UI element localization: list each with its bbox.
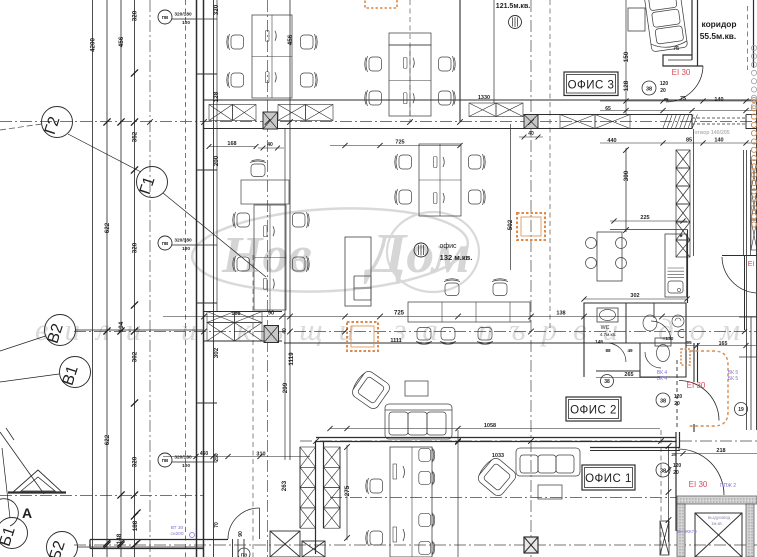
axis bubble B1 bbox=[0, 518, 28, 549]
WC door arc 3 bbox=[645, 352, 661, 368]
dim text 302 kitchen bbox=[584, 298, 687, 300]
axis line B horizontal y=545 bbox=[74, 544, 757, 546]
leader line B2 axis bbox=[77, 546, 204, 548]
corridor wall step bbox=[663, 55, 703, 66]
column X bottom a bbox=[270, 531, 300, 557]
svg-text:ВН ЖК70: ВН ЖК70 bbox=[677, 529, 697, 534]
wall band V bottom edge bbox=[204, 340, 283, 342]
door jambs bottom bbox=[232, 539, 234, 557]
svg-text:100: 100 bbox=[182, 246, 190, 252]
dim 168 top bbox=[209, 146, 256, 148]
vent symbol PB 2 bbox=[158, 236, 196, 252]
svg-text:А: А bbox=[22, 505, 32, 521]
WC door arc 2 bbox=[651, 321, 671, 341]
svg-text:265: 265 bbox=[624, 372, 633, 378]
axis bubble G1 bbox=[137, 167, 168, 198]
svg-text:ПЗ: ПЗ bbox=[241, 553, 247, 557]
column X dark x524 bbox=[524, 537, 538, 553]
chair D top bbox=[250, 160, 266, 177]
svg-text:1033: 1033 bbox=[492, 453, 504, 459]
svg-text:263: 263 bbox=[281, 480, 288, 491]
svg-text:725: 725 bbox=[394, 311, 405, 317]
svg-text:коридор: коридор bbox=[701, 19, 736, 29]
svg-text:622: 622 bbox=[104, 222, 111, 233]
circled 38 ofis2 bbox=[656, 393, 670, 407]
svg-text:25: 25 bbox=[671, 452, 677, 458]
svg-text:502: 502 bbox=[507, 219, 514, 230]
svg-text:WC: WC bbox=[601, 325, 610, 331]
svg-text:сн200: сн200 bbox=[170, 531, 183, 537]
axis bubble V1 bbox=[60, 357, 91, 388]
window band line x=217 bbox=[216, 0, 218, 312]
orange duct path bbox=[688, 351, 728, 426]
leader line G2-G1 bbox=[68, 134, 141, 172]
svg-text:1119: 1119 bbox=[288, 352, 295, 366]
orange column square 1 bbox=[347, 322, 378, 351]
leader line to B1 bbox=[2, 448, 10, 518]
svg-text:19: 19 bbox=[738, 407, 744, 413]
dim 40 col top bbox=[519, 136, 543, 138]
hatch band bottom right col bbox=[324, 447, 341, 467]
watermark logo ellipse bbox=[190, 202, 479, 298]
stippled wall vertical left bbox=[677, 504, 685, 557]
svg-text:132 м.кв.: 132 м.кв. bbox=[440, 253, 473, 262]
axis line vertical x=150 bbox=[149, 0, 151, 557]
svg-text:250: 250 bbox=[214, 453, 220, 462]
dim line x=347 bottom bbox=[346, 445, 348, 540]
wall right mid horizontal y=255 bbox=[722, 255, 757, 257]
vent symbol PB 3 bbox=[158, 453, 196, 469]
svg-text:302: 302 bbox=[213, 347, 220, 358]
svg-text:38: 38 bbox=[660, 399, 666, 405]
wall line x=460 top bbox=[459, 0, 461, 122]
svg-text:120: 120 bbox=[660, 81, 669, 87]
svg-text:ПВ: ПВ bbox=[162, 241, 169, 246]
dim line y=145 top bbox=[330, 145, 460, 147]
axis line vertical x=267.5 bbox=[267, 0, 269, 557]
kitchen counter line bbox=[610, 229, 688, 231]
svg-text:168: 168 bbox=[231, 311, 240, 317]
svg-text:188: 188 bbox=[132, 520, 139, 531]
corridor wall below door bbox=[693, 129, 695, 256]
svg-text:225: 225 bbox=[640, 215, 649, 221]
kitchen sink bbox=[668, 281, 683, 293]
svg-text:+130: +130 bbox=[663, 336, 674, 342]
window sill marks left wall bbox=[197, 73, 218, 75]
dim text 225 bbox=[610, 220, 687, 222]
hatched wall cells top left bbox=[209, 105, 233, 121]
leader line to V1 bbox=[0, 374, 59, 382]
svg-text:55.5м.кв.: 55.5м.кв. bbox=[700, 31, 737, 41]
dim chain line x=107 bbox=[106, 0, 108, 557]
svg-text:70: 70 bbox=[214, 522, 220, 528]
svg-text:320/180: 320/180 bbox=[174, 455, 192, 461]
chairs cluster F right bbox=[419, 447, 435, 462]
svg-text:20: 20 bbox=[674, 401, 680, 407]
svg-text:140: 140 bbox=[714, 97, 723, 103]
axis line vertical x=185.5 dashed bbox=[185, 0, 187, 557]
wall opening dashed right corridor bbox=[692, 117, 746, 119]
north triangle inner bbox=[21, 477, 55, 491]
dim line x626 mid bbox=[625, 148, 627, 232]
wall stub x=694 bbox=[693, 343, 695, 382]
svg-text:302: 302 bbox=[132, 351, 139, 362]
sofa bottom bbox=[516, 448, 580, 476]
svg-text:БК 5: БК 5 bbox=[728, 376, 739, 382]
svg-text:310: 310 bbox=[256, 452, 265, 458]
svg-text:352: 352 bbox=[132, 131, 139, 142]
svg-text:49: 49 bbox=[627, 348, 633, 353]
desk cluster C bbox=[419, 144, 461, 216]
stippled wall vertical right bbox=[746, 504, 754, 557]
wall band outer lines bottom bbox=[299, 447, 301, 528]
hatched wall cells top mid bbox=[278, 105, 306, 121]
desk cluster F bbox=[390, 447, 432, 557]
circled 19 bbox=[735, 403, 748, 416]
dim ticks left chains bbox=[131, 69, 138, 76]
svg-text:320: 320 bbox=[132, 456, 139, 467]
chairs cluster B left bbox=[365, 56, 382, 72]
axis line vertical x=531 bbox=[530, 0, 532, 557]
svg-text:622: 622 bbox=[104, 434, 111, 445]
svg-text:100: 100 bbox=[182, 20, 190, 26]
wall band bottom edge y=128.5 bbox=[204, 128, 693, 130]
north triangle outer bbox=[12, 470, 63, 493]
corridor wall vertical x=692 bbox=[691, 0, 693, 60]
cabinet detail H bbox=[354, 276, 371, 300]
svg-text:ОФИС 3: ОФИС 3 bbox=[568, 79, 615, 91]
svg-text:120: 120 bbox=[673, 463, 682, 469]
svg-text:1330: 1330 bbox=[478, 95, 490, 101]
hatched wall cells top x469 bbox=[469, 103, 496, 117]
leader line G1 down bbox=[163, 193, 266, 277]
axis cross ticks bbox=[147, 119, 153, 125]
vent circle office3 bbox=[509, 16, 522, 29]
svg-text:4.7м.кв.: 4.7м.кв. bbox=[600, 332, 617, 337]
dim line y=456 left bbox=[163, 456, 310, 458]
svg-text:725: 725 bbox=[395, 140, 404, 146]
building edge diagonals bottom left bbox=[0, 432, 44, 494]
armchair bottom bbox=[475, 455, 518, 498]
dim text 1058 line ticks bbox=[327, 426, 332, 431]
chairs cluster A left bbox=[227, 34, 244, 50]
chairs cluster C left bbox=[395, 154, 412, 170]
svg-text:85: 85 bbox=[686, 138, 692, 144]
svg-text:75: 75 bbox=[680, 96, 686, 102]
leader line V2 axis bbox=[75, 329, 204, 331]
insulation bubbles right edge bbox=[751, 45, 756, 227]
axis line horizontal y=497.5 right bbox=[330, 497, 757, 499]
column X bottom b bbox=[302, 541, 325, 557]
axis bubble B2 bbox=[47, 532, 78, 557]
door arc ofis2 bbox=[679, 381, 719, 421]
monitors cluster F bbox=[393, 464, 397, 479]
corridor dim line y=101 bbox=[600, 100, 757, 102]
wall oФИС2 right vertical bbox=[675, 432, 677, 531]
svg-text:EI 30: EI 30 bbox=[687, 381, 706, 390]
corridor sofa bbox=[644, 0, 688, 52]
shaft hatch right edge bbox=[751, 160, 757, 190]
partition line x=285 bbox=[284, 129, 286, 460]
wall band top edge y=100 bbox=[204, 99, 757, 101]
svg-text:456: 456 bbox=[287, 34, 294, 45]
svg-text:ПВ: ПВ bbox=[162, 458, 169, 463]
wall corner vertical x=316 bbox=[315, 441, 317, 554]
wall WC partition x=626 bbox=[625, 303, 627, 343]
svg-text:275: 275 bbox=[344, 485, 351, 496]
svg-text:ВТ 30: ВТ 30 bbox=[171, 525, 184, 531]
svg-text:въздуховод: въздуховод bbox=[708, 515, 731, 520]
dim line x=510 middle bbox=[510, 124, 512, 270]
vent symbol PB 1 bbox=[158, 10, 196, 26]
desk D top bbox=[241, 180, 289, 204]
north triangle base bbox=[8, 491, 66, 493]
office 2 label box bbox=[566, 397, 621, 421]
svg-text:456: 456 bbox=[118, 36, 125, 47]
wall left inner line bbox=[213, 0, 215, 557]
wall jamb x=746 bbox=[745, 115, 747, 130]
wall WC partition x=640 bbox=[639, 343, 641, 377]
svg-text:140: 140 bbox=[714, 138, 723, 144]
column G2 axis bbox=[263, 112, 278, 129]
svg-text:150: 150 bbox=[623, 51, 630, 62]
hatch band stair x=671 bbox=[676, 150, 690, 168]
desk cluster E band bbox=[408, 302, 530, 322]
corridor door arc bbox=[666, 66, 703, 102]
leader line to G2 bbox=[0, 124, 42, 130]
svg-text:38: 38 bbox=[646, 87, 652, 93]
svg-text:128: 128 bbox=[623, 80, 630, 91]
svg-text:65: 65 bbox=[605, 106, 611, 112]
dim line x=668 bottom right bbox=[668, 446, 670, 542]
dim line x=626 top right bbox=[625, 0, 627, 115]
dim line y=142.5 right bbox=[600, 142, 757, 144]
svg-text:EI 30: EI 30 bbox=[689, 480, 708, 489]
svg-text:165: 165 bbox=[719, 341, 728, 347]
chairs cluster D right bbox=[293, 212, 310, 228]
armchair mid bbox=[349, 368, 392, 411]
svg-text:38: 38 bbox=[660, 469, 666, 475]
wall WC outline bbox=[584, 303, 686, 377]
svg-text:офис: офис bbox=[439, 243, 457, 250]
wall left vertical double bbox=[196, 0, 198, 557]
svg-text:200: 200 bbox=[213, 155, 220, 166]
wall cap x=90 bbox=[89, 540, 91, 549]
svg-text:ОФИС 1: ОФИС 1 bbox=[585, 473, 632, 485]
kitchen right wall bbox=[687, 230, 689, 304]
svg-text:320: 320 bbox=[132, 10, 139, 21]
svg-text:128: 128 bbox=[213, 91, 220, 102]
duct narrow rect bottom right bbox=[660, 521, 669, 555]
dim line y=316 bbox=[163, 316, 757, 318]
office 1 label box bbox=[582, 465, 635, 490]
coffee table mid bbox=[405, 381, 428, 396]
column V axis bbox=[264, 326, 279, 343]
door arc bottom left bbox=[228, 508, 260, 539]
column X bottom right big bbox=[695, 513, 742, 557]
svg-text:1111: 1111 bbox=[390, 338, 401, 344]
svg-text:40: 40 bbox=[267, 142, 273, 148]
svg-text:194: 194 bbox=[118, 321, 125, 332]
axis line G2 horizontal y=121.5 bbox=[0, 121, 757, 123]
circled 38 ofis1 bbox=[656, 463, 670, 477]
svg-text:302: 302 bbox=[630, 293, 639, 299]
svg-text:ППЖ 2: ППЖ 2 bbox=[720, 483, 736, 489]
svg-text:168: 168 bbox=[227, 141, 236, 147]
chairs cluster D left bbox=[233, 212, 250, 228]
dim chain line x=134.5 bbox=[134, 0, 136, 557]
corridor dim line y=110 bbox=[600, 110, 757, 112]
door arc bottom right bbox=[678, 449, 724, 495]
circled 38 corridor bbox=[642, 81, 656, 95]
right lower ticks bbox=[742, 329, 747, 334]
corridor door leaf bbox=[665, 66, 667, 102]
wall inner line y=114.5 right bbox=[538, 114, 692, 116]
right wall top edge bbox=[753, 0, 755, 68]
circled 38 wc bbox=[601, 375, 614, 388]
svg-text:100: 100 bbox=[182, 463, 190, 469]
desk cluster A bbox=[252, 15, 292, 98]
desk cluster B bbox=[389, 45, 431, 116]
office 3 label box bbox=[564, 72, 618, 96]
wall ofis1 top double bbox=[590, 447, 680, 449]
hatched wall cells top x560 bbox=[560, 115, 595, 129]
vent circle office bbox=[414, 243, 428, 257]
svg-text:40: 40 bbox=[282, 328, 288, 334]
svg-text:ПВ: ПВ bbox=[162, 15, 169, 20]
svg-text:90: 90 bbox=[268, 311, 274, 317]
WC toilet bbox=[655, 338, 671, 346]
dim 40 col mid bbox=[258, 147, 284, 149]
svg-text:149: 149 bbox=[595, 339, 603, 344]
svg-text:300: 300 bbox=[623, 170, 630, 181]
dim chain line x=92 bbox=[92, 0, 94, 557]
dim text 218 bottom right bbox=[676, 453, 757, 455]
chairs cluster C right bbox=[469, 154, 486, 170]
svg-text:40: 40 bbox=[528, 131, 534, 137]
wall WC inner horizontal bbox=[584, 342, 686, 344]
dim line x=458 bottom bbox=[457, 430, 459, 557]
svg-text:EI: EI bbox=[748, 261, 755, 268]
circled label bottom door bbox=[238, 548, 250, 557]
table bottom sofa bbox=[538, 485, 562, 499]
svg-text:45: 45 bbox=[663, 97, 669, 103]
wall band V top edge bbox=[204, 311, 283, 313]
dim line y=428 bbox=[330, 428, 660, 430]
svg-text:320: 320 bbox=[213, 4, 220, 15]
svg-text:EI 30: EI 30 bbox=[672, 68, 691, 77]
axis bubble G2 bbox=[42, 107, 73, 138]
svg-text:121.5м.кв.: 121.5м.кв. bbox=[496, 3, 530, 10]
axis line vertical x=747.5 dashed top right bbox=[747, 6, 749, 70]
svg-text:4200: 4200 bbox=[90, 38, 97, 53]
WC door arc 1 bbox=[607, 343, 626, 362]
svg-text:320: 320 bbox=[132, 242, 139, 253]
svg-text:88: 88 bbox=[605, 348, 611, 353]
svg-text:20: 20 bbox=[673, 470, 679, 476]
axis line vertical x=661 dashed bottom bbox=[660, 430, 662, 557]
wall WC partition x=654 short bbox=[653, 303, 655, 318]
WC dim 265 bbox=[596, 377, 660, 379]
partition line x=290 bbox=[289, 0, 291, 460]
svg-text:1м.кв.: 1м.кв. bbox=[711, 521, 723, 526]
orange top rect bbox=[365, 0, 397, 8]
glass line x=494 top bbox=[493, 0, 495, 103]
svg-text:95: 95 bbox=[686, 340, 692, 346]
stippled wall horizontal bottom right bbox=[677, 496, 757, 504]
column top x524 bbox=[524, 115, 538, 129]
kitchen counter bbox=[665, 234, 687, 297]
hatched wall cells V row1 bbox=[207, 312, 235, 323]
hatch band bottom left col bbox=[300, 447, 316, 467]
chairs cluster E bottom bbox=[416, 328, 432, 345]
svg-text:БК 4: БК 4 bbox=[657, 376, 668, 382]
svg-text:320/180: 320/180 bbox=[174, 12, 192, 18]
wall bottom left double bbox=[90, 539, 228, 541]
chairs cluster E top bbox=[444, 279, 460, 296]
wall jamb x=692 bbox=[691, 115, 693, 130]
axis line V horizontal y=331.5 bbox=[74, 331, 757, 333]
orange column square 2 bbox=[517, 213, 545, 240]
corridor table bbox=[628, 8, 645, 31]
dim line y=345 right of wc bbox=[686, 345, 757, 347]
svg-text:299: 299 bbox=[282, 382, 289, 393]
svg-text:450: 450 bbox=[200, 451, 209, 457]
door arc right mid bbox=[722, 257, 756, 293]
svg-text:20: 20 bbox=[660, 88, 666, 94]
svg-text:218: 218 bbox=[716, 448, 725, 454]
cabinet tall bbox=[345, 237, 371, 306]
WC symbol C bbox=[678, 330, 684, 338]
right edge wall lines bbox=[756, 100, 757, 430]
kitchen stove bbox=[668, 267, 685, 269]
svg-text:148: 148 bbox=[116, 533, 123, 544]
svg-text:1058: 1058 bbox=[484, 423, 496, 429]
door jamb dashed x=677 bbox=[676, 360, 678, 428]
desk cluster B header bbox=[389, 33, 431, 45]
sofa mid bbox=[385, 404, 452, 439]
leader line to V2 bbox=[0, 336, 46, 351]
dim chain line x=121 bbox=[120, 0, 122, 557]
WC sink bbox=[597, 308, 618, 322]
kitchen table bbox=[597, 232, 622, 281]
chairs cluster A right bbox=[301, 34, 318, 50]
svg-text:120: 120 bbox=[674, 394, 683, 400]
axis line horizontal y=497.5 left bbox=[0, 495, 204, 497]
svg-text:38: 38 bbox=[604, 379, 610, 385]
WC washing machine bbox=[672, 315, 684, 327]
svg-text:Нов: Нов bbox=[221, 227, 312, 284]
hatch stair band x663 bbox=[663, 115, 697, 129]
hatched wall cells V row2 bbox=[207, 323, 235, 342]
axis line vertical x=410 dashed top bbox=[409, 0, 411, 122]
wall line y=343 bbox=[284, 342, 584, 344]
ticks bottom cluster bbox=[103, 539, 110, 546]
svg-text:320/180: 320/180 bbox=[174, 238, 192, 244]
chairs cluster B right bbox=[439, 56, 456, 72]
orange square wc corner bbox=[681, 349, 690, 365]
axis line vertical x=253 dashed bbox=[252, 255, 254, 557]
kitchen chairs bbox=[586, 238, 597, 249]
chairs cluster F left bbox=[366, 478, 383, 494]
wall bottom oФИС2 double bbox=[316, 437, 676, 439]
wall stub x=694 lower bbox=[693, 424, 695, 432]
wall right mid vertical bbox=[744, 256, 746, 331]
svg-text:ОФИС 2: ОФИС 2 bbox=[570, 405, 617, 417]
axis line vertical x=550 dashed bbox=[549, 0, 551, 330]
axis bubble V2 bbox=[45, 315, 76, 346]
WC sink 2 bbox=[643, 315, 657, 331]
